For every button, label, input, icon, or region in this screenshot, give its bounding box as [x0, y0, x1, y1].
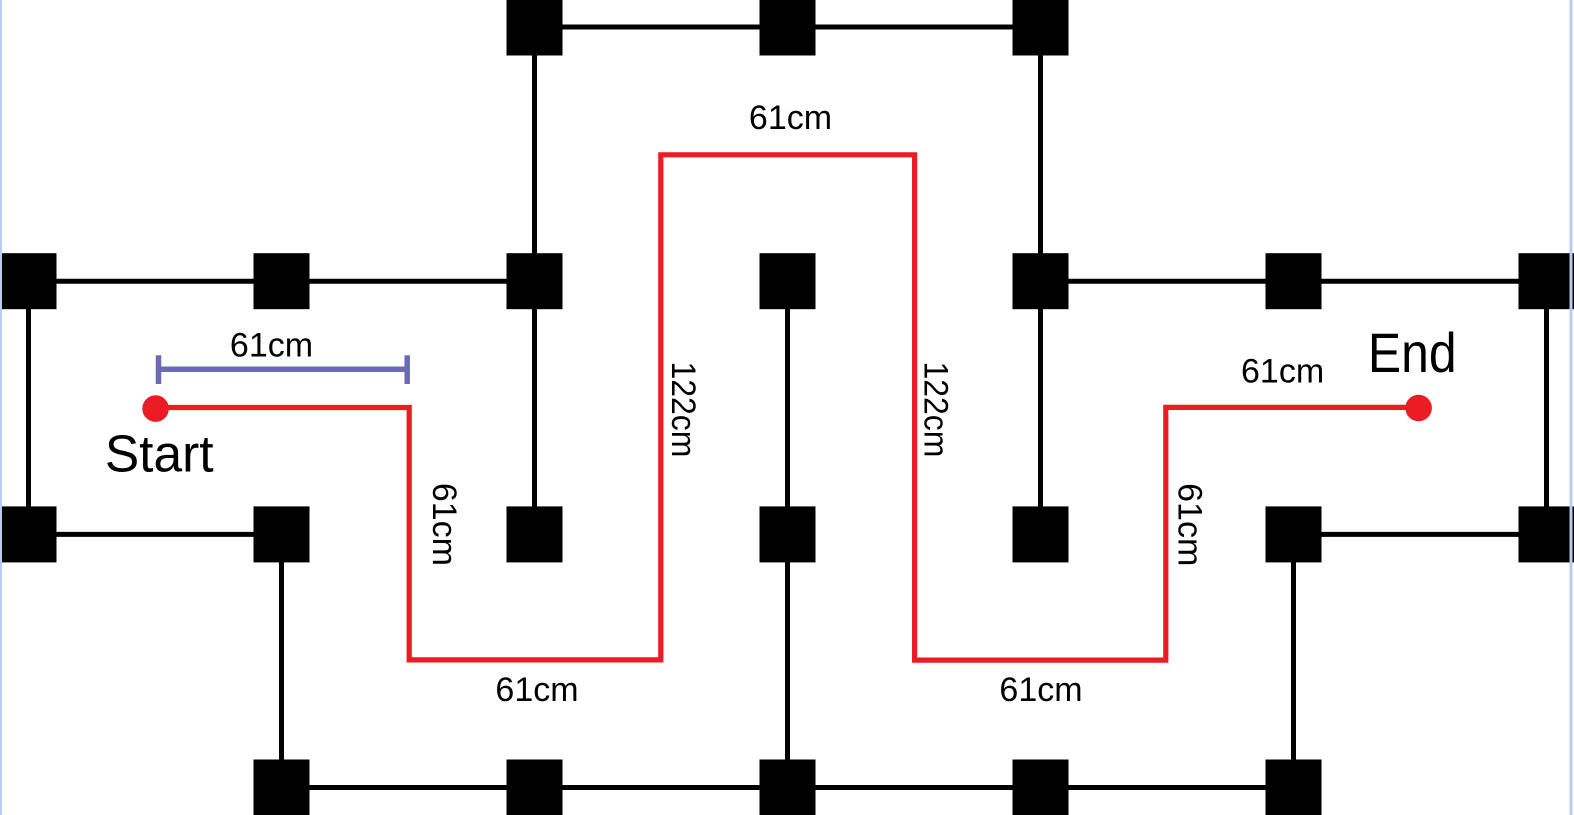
- end dot: [1405, 395, 1432, 422]
- wire bottom row horizontal: [282, 785, 1294, 790]
- node square row1 col281: [254, 253, 310, 309]
- left page edge line: [0, 0, 2, 815]
- svg-text:61cm: 61cm: [425, 483, 463, 566]
- dimension bar left tick: [156, 355, 162, 384]
- svg-text:122cm: 122cm: [665, 361, 703, 457]
- node square row1 col534: [507, 253, 563, 309]
- wire vertical column 1293 lower: [1291, 534, 1296, 787]
- wire row3 right horizontal: [1294, 532, 1547, 537]
- wire row2 right horizontal: [1041, 279, 1547, 284]
- svg-text:61cm: 61cm: [999, 671, 1082, 709]
- wire vertical column 281 lower: [279, 534, 284, 787]
- node square row3 col281: [254, 760, 310, 815]
- node square row2 col787: [760, 506, 816, 562]
- node square row2 col281: [254, 506, 310, 562]
- wire vertical right column: [1544, 281, 1549, 534]
- node square row3 col787: [760, 760, 816, 815]
- svg-text:Start: Start: [105, 424, 214, 482]
- node square row1 col1546: [1519, 253, 1574, 309]
- wire vertical column 1040 upper: [1038, 27, 1043, 534]
- node square row0 col1040: [1013, 0, 1069, 56]
- dimension bar line: [159, 367, 408, 373]
- node square row2 col1546: [1519, 506, 1574, 562]
- node square row1 col1040: [1013, 253, 1069, 309]
- node square row0 col787: [760, 0, 816, 56]
- wire top row horizontal: [535, 25, 1041, 30]
- wire vertical column 787: [785, 281, 790, 787]
- node square row2 col534: [507, 506, 563, 562]
- node square row0 col534: [507, 0, 563, 56]
- wire row3 left horizontal: [29, 532, 282, 537]
- svg-text:122cm: 122cm: [917, 361, 955, 457]
- node square row2 col28: [1, 506, 57, 562]
- svg-text:61cm: 61cm: [495, 671, 578, 709]
- dimension bar right tick: [404, 355, 410, 384]
- node square row3 col1040: [1013, 760, 1069, 815]
- svg-text:End: End: [1368, 322, 1457, 384]
- svg-text:61cm: 61cm: [230, 327, 313, 365]
- wire vertical column 534 upper: [532, 27, 537, 534]
- right page edge line: [1570, 0, 1573, 815]
- start dot: [142, 395, 169, 422]
- node square row3 col534: [507, 760, 563, 815]
- wire row2 left horizontal: [29, 279, 535, 284]
- svg-text:61cm: 61cm: [1171, 483, 1209, 566]
- node square row1 col28: [1, 253, 57, 309]
- node square row1 col787: [760, 253, 816, 309]
- node square row2 col1040: [1013, 506, 1069, 562]
- node square row1 col1293: [1266, 253, 1322, 309]
- red route path start to end: [156, 155, 1419, 660]
- wire vertical left column: [26, 281, 31, 534]
- svg-text:61cm: 61cm: [749, 99, 832, 137]
- node square row2 col1293: [1266, 506, 1322, 562]
- svg-text:61cm: 61cm: [1241, 352, 1324, 390]
- node square row3 col1293: [1266, 760, 1322, 815]
